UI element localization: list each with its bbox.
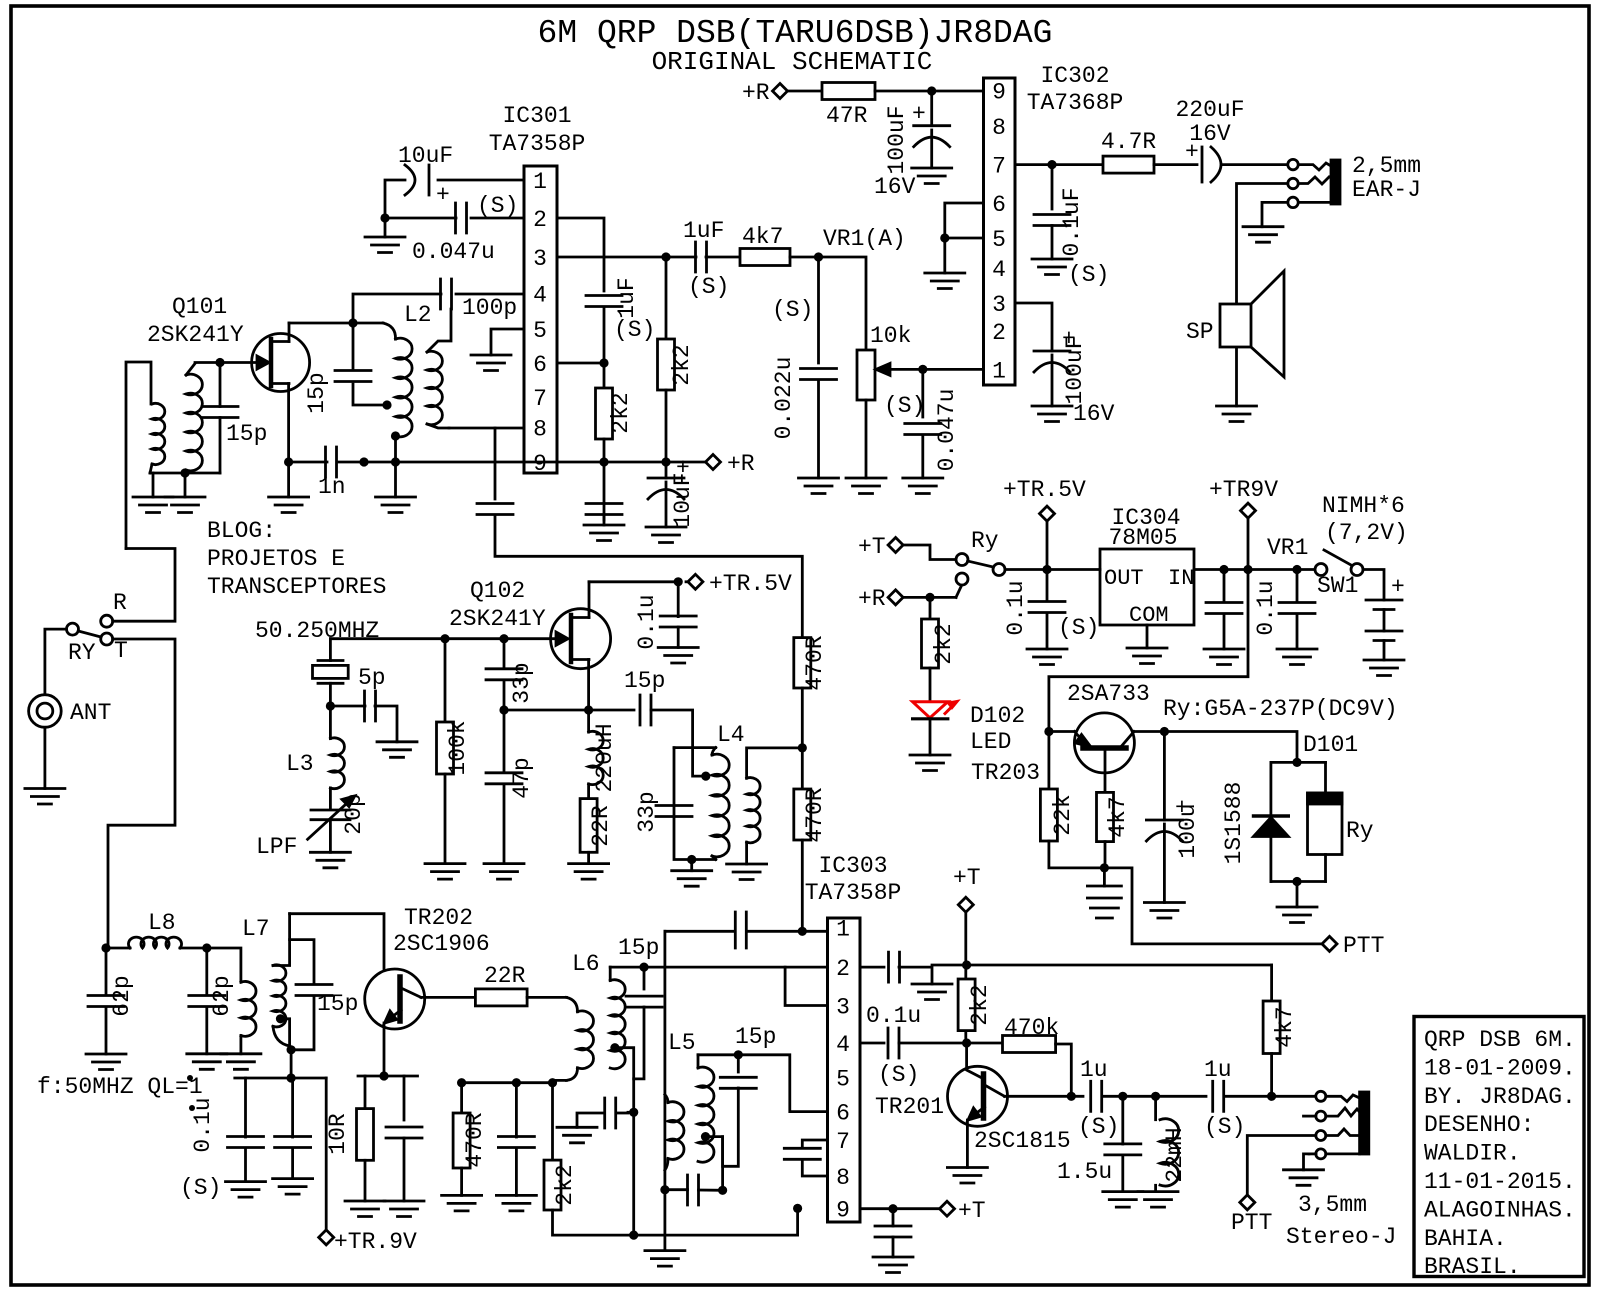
wire IN rail [1194, 568, 1321, 571]
junction source/rail [284, 457, 293, 466]
svg-text:20p: 20p [341, 793, 367, 834]
wire to 5p [330, 705, 365, 708]
wire 0.1u tr202 [244, 1078, 247, 1137]
ground [1364, 660, 1404, 676]
wire L6 left bottom [553, 1080, 567, 1082]
wire [616, 1112, 628, 1115]
svg-text:WALDIR.: WALDIR. [1424, 1141, 1521, 1167]
ground SP [1217, 406, 1257, 422]
svg-text:IC303: IC303 [818, 853, 887, 879]
wire +T to Ry [903, 545, 956, 560]
svg-text:LPF: LPF [256, 834, 297, 860]
wire gate Q101 [195, 361, 251, 364]
svg-text:ORIGINAL SCHEMATIC: ORIGINAL SCHEMATIC [652, 47, 933, 77]
wire L2s top [427, 309, 451, 352]
wire pin6 rail [698, 1055, 828, 1112]
capacitor 470R rail [498, 1137, 534, 1148]
op-amp U IC301 body [524, 166, 557, 473]
junction pin9 left [793, 1204, 802, 1213]
svg-text:+T: +T [958, 1198, 986, 1224]
svg-text:10uF: 10uF [670, 472, 696, 527]
inductor T1 secondary [186, 374, 202, 471]
ground [376, 497, 416, 513]
wire T1s top [186, 364, 195, 376]
wire [1046, 613, 1049, 649]
wire 2k2 to rail [603, 439, 606, 462]
wire to 22R [587, 784, 590, 799]
junction 0.1u q102 [674, 577, 683, 586]
svg-text:Ry: Ry [1346, 818, 1374, 844]
ground [1032, 406, 1072, 422]
capacitor 0.047u [456, 203, 467, 233]
wire pin1 IC301 [438, 179, 524, 182]
resistor 2k2 led [922, 619, 939, 668]
resistor 470R a [794, 638, 811, 688]
wire 22R out [527, 996, 566, 999]
wire [403, 1138, 406, 1201]
stereo jack body [1360, 1092, 1369, 1154]
wire cap [1223, 570, 1226, 603]
wire 470k to coll [1056, 1044, 1072, 1096]
wire bottom rail [553, 1210, 798, 1235]
wire to cap [515, 1083, 518, 1137]
wire 4k7 out [790, 256, 819, 259]
ground [645, 1251, 685, 1267]
capacitor 0.047u b [905, 424, 941, 435]
svg-text:L2: L2 [404, 302, 432, 328]
wire 100p to drain node [353, 294, 441, 323]
svg-text:(S): (S) [1078, 1114, 1119, 1140]
wire T1s tail [185, 470, 186, 473]
junction 15p l6 [639, 963, 648, 972]
wire top rail TX [967, 964, 1272, 967]
resistor 4k7 out [1263, 1001, 1280, 1054]
wire 470R mid [801, 688, 804, 748]
wire to gnd [943, 238, 946, 273]
wire L4s gnd [745, 842, 748, 864]
resistor 47R [822, 83, 875, 100]
wire L4 frame [674, 748, 716, 860]
svg-text:IN: IN [1168, 566, 1194, 591]
wire +R to 47R [788, 90, 822, 93]
svg-text:PTT: PTT [1343, 933, 1384, 959]
svg-text:0.1u: 0.1u [1003, 580, 1029, 635]
wire 15p [643, 967, 646, 989]
svg-text:TA7358P: TA7358P [805, 880, 902, 906]
transistor TR201 body [948, 1066, 1008, 1126]
ground [133, 497, 173, 513]
svg-text:(S): (S) [477, 193, 518, 219]
ground [165, 497, 205, 513]
wire wiper [880, 368, 923, 371]
wire to cap L5 [665, 1188, 688, 1191]
svg-text:78M05: 78M05 [1108, 525, 1177, 551]
svg-text:2k2: 2k2 [669, 344, 695, 385]
wire to 470R rail [495, 515, 802, 638]
junction collector [1067, 1092, 1076, 1101]
junction 33p [499, 634, 508, 643]
wire pin7 cap [1051, 165, 1054, 209]
svg-text:D101: D101 [1303, 732, 1358, 758]
svg-text:EAR-J: EAR-J [1352, 177, 1421, 203]
ground stereo [1284, 1170, 1324, 1186]
svg-text:+R: +R [858, 586, 886, 612]
capacitor 10uF rail [648, 477, 684, 480]
resistor 4k7 tr203 [1097, 792, 1114, 841]
wire source node [504, 709, 634, 712]
svg-text:22R: 22R [588, 805, 614, 847]
terminal +TR.5V b [688, 574, 703, 589]
wire pin4 IC301 [456, 293, 524, 296]
wire collector [421, 996, 475, 999]
svg-text:1uF: 1uF [614, 277, 640, 318]
wire base to 4k7 [1104, 748, 1107, 792]
wire to gnd [921, 435, 924, 478]
svg-text:7: 7 [992, 154, 1006, 180]
crystal 50.250MHZ [318, 661, 343, 684]
ground [484, 864, 524, 880]
capacitor pin2 IC303 [889, 952, 900, 982]
inductor L8 [128, 937, 181, 948]
capacitor 15p in [202, 407, 238, 418]
svg-text:COM: COM [1129, 603, 1169, 628]
terminal +TR9V [1241, 503, 1256, 518]
svg-text:Q101: Q101 [172, 294, 227, 320]
junction pin9 [888, 1204, 897, 1213]
svg-text:RY: RY [68, 640, 96, 666]
wire 10R gnd [364, 1160, 367, 1201]
svg-text:1u: 1u [1204, 1057, 1232, 1083]
ground TR203 [1087, 886, 1121, 918]
wire pin5 IC302 [945, 237, 984, 240]
ground [1103, 1192, 1143, 1208]
wire to ground [384, 218, 387, 237]
svg-text:15p: 15p [304, 372, 330, 413]
wire L5 tap [706, 1137, 723, 1191]
ground [365, 237, 405, 253]
wire [665, 482, 668, 527]
svg-text:5p: 5p [358, 665, 386, 691]
wire to 2k2 [603, 363, 606, 388]
wire pin8 IC303 [802, 1160, 827, 1177]
wire 15p bottom [634, 1007, 644, 1079]
svg-text:(S): (S) [1068, 262, 1109, 288]
junction L4 gnd [687, 855, 696, 864]
junction 470R/pin1 [798, 927, 807, 936]
ground [442, 1195, 482, 1211]
wire COM gnd [1146, 625, 1149, 648]
svg-text:2SK241Y: 2SK241Y [147, 322, 244, 348]
wire coil top [1324, 762, 1327, 793]
svg-text:ANT: ANT [70, 700, 111, 726]
wire to 0.047u [921, 369, 924, 417]
capacitor 62p b [189, 996, 225, 1007]
svg-text:4k7: 4k7 [742, 224, 783, 250]
wire [105, 1007, 108, 1054]
wire ring2 spring [1326, 1129, 1360, 1136]
wire pot to gnd [865, 400, 868, 478]
capacitor pin9 [875, 1226, 911, 1237]
svg-text:47R: 47R [826, 103, 868, 129]
wire top D101 [1271, 761, 1326, 764]
junction L7 tap [276, 1014, 285, 1023]
svg-text:+TR.9V: +TR.9V [334, 1229, 417, 1255]
wire sleeve [1298, 201, 1331, 204]
ground [910, 755, 950, 771]
capacitor 1u a [1091, 1081, 1102, 1111]
wire 1uF to 4k7 [706, 256, 740, 259]
inductor L4 primary loops [712, 754, 729, 857]
inductor L5 left [665, 1095, 668, 1103]
wire Ry to 5V rail [1005, 568, 1047, 571]
svg-text:9: 9 [992, 79, 1006, 105]
ground [1144, 903, 1184, 919]
title block [1414, 1017, 1584, 1277]
wire to relay [1164, 732, 1297, 763]
transistor TR201 internals [981, 1074, 987, 1118]
ground [658, 648, 698, 664]
wire ant to T1 [126, 362, 151, 549]
wire 1.5u [1121, 1096, 1124, 1144]
wire 0.1uF gnd [1051, 226, 1054, 260]
capacitor bypass L6 [605, 1098, 616, 1128]
inductor L2 secondary [427, 351, 442, 424]
inductor L2 primary loops [396, 338, 413, 437]
svg-text:470R: 470R [802, 635, 828, 690]
wire to L8 [106, 947, 130, 950]
wire 62p a [105, 948, 108, 995]
ground [1243, 227, 1283, 243]
wire 22mH [1154, 1096, 1157, 1119]
relay lever [968, 561, 994, 567]
wire 0.022u to gnd [817, 380, 820, 478]
wire ANT gnd [44, 727, 47, 788]
svg-text:+: + [1185, 139, 1199, 165]
ground [384, 1201, 424, 1217]
svg-text:2: 2 [533, 207, 547, 233]
op-amp U IC302 body [984, 78, 1016, 385]
capacitor 0.022u [801, 369, 837, 380]
resistor 22R tr202 [475, 989, 527, 1006]
svg-text:8: 8 [533, 417, 547, 443]
ground [1138, 1192, 1178, 1208]
svg-text:16V: 16V [874, 174, 916, 200]
wire pin1 left [665, 930, 735, 933]
capacitor pin8 [477, 504, 513, 515]
wire rail 10uF [665, 462, 668, 478]
wire pin2 to +T rail [932, 964, 967, 967]
stereo ring1 [1316, 1111, 1326, 1121]
svg-text:BY. JR8DAG.: BY. JR8DAG. [1424, 1084, 1576, 1110]
junction 0.1u 9V [1292, 565, 1301, 574]
svg-text:+TR.5V: +TR.5V [1003, 477, 1086, 503]
svg-text:(S): (S) [884, 393, 925, 419]
wire rail to 4k7 [1270, 965, 1273, 1001]
wire 0.1u [677, 582, 680, 617]
svg-text:6: 6 [836, 1101, 850, 1127]
junction L5 cap [718, 1186, 727, 1195]
potentiometer 10k [857, 350, 875, 400]
wire [892, 1237, 895, 1257]
svg-text:220uH: 220uH [592, 723, 618, 792]
wire +R [903, 596, 956, 599]
svg-text:7: 7 [533, 386, 547, 412]
svg-text:T: T [114, 638, 128, 664]
inductor L6 right loops [610, 980, 625, 1069]
svg-text:(S): (S) [1204, 1114, 1245, 1140]
capacitor 0.1u 5V [1029, 602, 1065, 613]
wire 2k2 led [929, 597, 932, 619]
wire 62p b [205, 948, 208, 995]
wire PTT relay [1104, 868, 1322, 944]
ground [269, 497, 309, 513]
svg-text:QRP DSB 6M.: QRP DSB 6M. [1424, 1027, 1576, 1053]
svg-text:1: 1 [992, 358, 1006, 384]
wire 47p gnd [503, 784, 506, 864]
wire cap L5 right [699, 1189, 723, 1192]
regulator IC304 body [1100, 549, 1194, 625]
wire 22R gnd [587, 852, 590, 863]
junction cap l5 [660, 1185, 669, 1194]
capacitor 100uF out [1034, 350, 1070, 353]
wire diode top [1270, 762, 1273, 816]
junction +TR.5V [1042, 565, 1051, 574]
svg-text:4: 4 [992, 257, 1006, 283]
wire to 470k [967, 1042, 1003, 1045]
svg-text:9: 9 [836, 1198, 850, 1224]
wire L2 gnd [394, 436, 397, 497]
svg-text:1: 1 [533, 169, 547, 195]
capacitor 33p [486, 669, 522, 680]
wire 470R rail [462, 1081, 553, 1084]
junction L5 tap [701, 1132, 710, 1141]
svg-text:1: 1 [836, 916, 850, 942]
junction base rail [1044, 727, 1053, 736]
svg-text:16V: 16V [1073, 401, 1115, 427]
svg-text:DESENHO:: DESENHO: [1424, 1112, 1534, 1138]
wire 4k7 down [1270, 1054, 1273, 1097]
wire source gnd [287, 462, 290, 497]
svg-text:TR203: TR203 [971, 760, 1040, 786]
wire pin8 drop [494, 428, 497, 499]
capacitor 15p L7 [296, 985, 332, 996]
jack body 2.5mm [1331, 160, 1340, 204]
stereo ring2 [1316, 1131, 1326, 1141]
ground [345, 1201, 385, 1217]
svg-text:5: 5 [533, 318, 547, 344]
wire 0.1u 9V [1296, 570, 1299, 603]
wire pin2 rail [610, 966, 827, 969]
wire [515, 1148, 518, 1195]
wire L7s top [273, 914, 290, 966]
wire to 2k2 l6 [551, 1083, 554, 1160]
svg-text:1.5u: 1.5u [1057, 1159, 1112, 1185]
svg-text:47p: 47p [509, 757, 535, 798]
svg-text:Ry:G5A-237P(DC9V): Ry:G5A-237P(DC9V) [1163, 696, 1398, 722]
wiper arrow [876, 363, 890, 375]
svg-text:100k: 100k [445, 720, 471, 775]
svg-text:11-01-2015.: 11-01-2015. [1424, 1169, 1576, 1195]
wire L4s top [747, 748, 803, 778]
wire to L7p [207, 948, 241, 982]
ground [646, 527, 686, 543]
wire 100u [1163, 732, 1166, 821]
svg-text:470R: 470R [802, 787, 828, 842]
wire node down [290, 1050, 293, 1078]
svg-text:SW1: SW1 [1317, 573, 1358, 599]
wire 1u out [1102, 1095, 1206, 1098]
wire 20p gnd [329, 820, 332, 853]
svg-text:(S): (S) [772, 297, 813, 323]
resistor 22k [1040, 789, 1057, 841]
junction L2/rail [391, 457, 400, 466]
relay contact T [956, 573, 968, 585]
svg-text:4k7: 4k7 [1105, 796, 1131, 837]
junction L8 right [202, 943, 211, 952]
svg-text:L6: L6 [572, 951, 600, 977]
wire to pot [819, 257, 867, 350]
wire to 100k [444, 639, 447, 722]
wire to 47p [503, 710, 506, 773]
svg-text:NIMH*6: NIMH*6 [1322, 493, 1405, 519]
transistor Q102 body [551, 609, 611, 669]
junction pin3 [661, 252, 670, 261]
wire rail to 1n [289, 461, 327, 464]
svg-text:5: 5 [836, 1066, 850, 1092]
inductor T1 primary [152, 403, 165, 464]
svg-text:VR1(A): VR1(A) [823, 226, 906, 252]
svg-text:2k2: 2k2 [552, 1164, 578, 1205]
svg-text:+TR.5V: +TR.5V [709, 571, 792, 597]
wire L4 top [674, 746, 716, 749]
svg-text:22mH: 22mH [1162, 1127, 1188, 1182]
svg-text:220uF: 220uF [1175, 97, 1244, 123]
ground [799, 478, 839, 494]
ground [425, 864, 465, 880]
svg-text:0.022u: 0.022u [771, 357, 797, 440]
wire T1 bottom rail [150, 472, 220, 475]
transistor TR203 internals [1083, 745, 1126, 751]
junction +R/2k2 [925, 593, 934, 602]
junction bottom rail [629, 1231, 638, 1240]
wire to mini gnd [899, 967, 932, 984]
switch SW1 b [1351, 564, 1363, 576]
svg-text:100u: 100u [1175, 803, 1201, 858]
wire OUT [1047, 568, 1100, 571]
junction 0.047u/10uF [380, 213, 389, 222]
wire to jack [1224, 1095, 1316, 1098]
stereo tip [1316, 1091, 1326, 1101]
wire L6 right top [609, 967, 612, 980]
ground [672, 871, 712, 887]
wire to gnd [690, 860, 693, 871]
svg-text:15p: 15p [317, 991, 358, 1017]
wire drain [288, 323, 291, 342]
svg-text:15p: 15p [624, 668, 665, 694]
wire pin2 to 1uF [557, 218, 604, 291]
wire ring spring [1298, 177, 1329, 184]
wire to gnd [577, 1113, 604, 1127]
inductor L5 left loops [668, 1102, 684, 1160]
junction gate [215, 358, 224, 367]
wire [244, 1148, 247, 1182]
resistor 470R b [794, 789, 811, 840]
svg-text:5: 5 [992, 227, 1006, 253]
svg-text:10uF: 10uF [398, 143, 453, 169]
capacitor rail [586, 504, 622, 515]
svg-text:0.047u: 0.047u [934, 389, 960, 472]
wire pin6 IC302 [945, 203, 984, 238]
